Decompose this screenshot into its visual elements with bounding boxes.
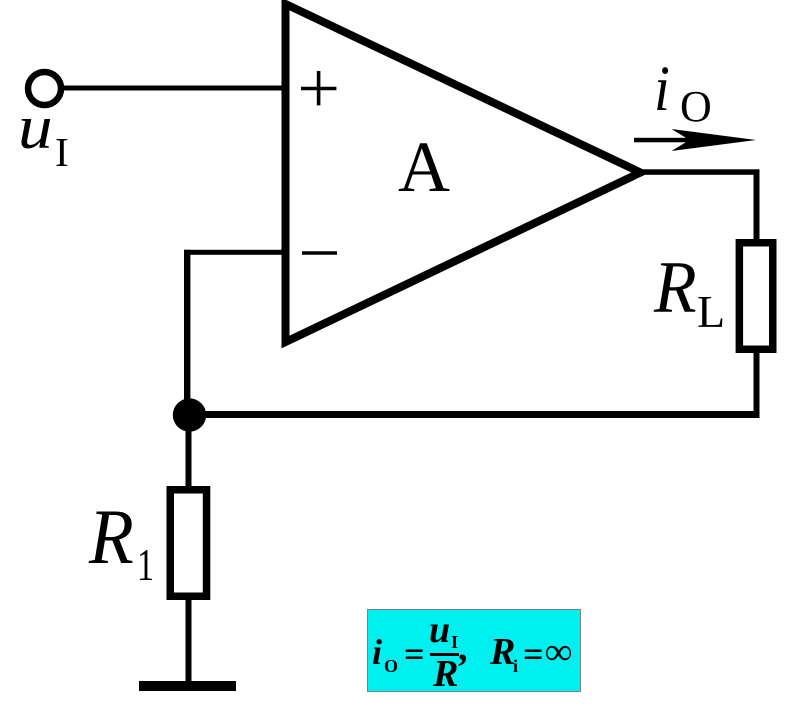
bottom wire node to RL branch (190, 411, 760, 418)
resistor RL (739, 243, 772, 350)
input terminal circle (28, 72, 61, 105)
svg-text:L: L (697, 286, 725, 337)
label R1 (88, 495, 154, 590)
node junction dot (173, 398, 206, 431)
feedback wire from inverting input (vertical) (184, 250, 190, 416)
svg-text:A: A (398, 127, 450, 207)
op-amp U1 triangle (286, 4, 641, 342)
svg-text:I: I (55, 129, 69, 175)
svg-text:u: u (18, 93, 53, 162)
svg-text:R: R (88, 495, 134, 581)
wire RL to bottom wire (754, 350, 760, 416)
wire input to op-amp (63, 86, 287, 91)
svg-text:i: i (654, 53, 670, 125)
svg-text:1: 1 (137, 539, 154, 590)
plus sign (noninverting input) (301, 71, 336, 105)
label u_I (18, 93, 69, 175)
feedback wire from inverting input (horizontal) (184, 250, 287, 255)
output wire from op-amp (639, 169, 760, 175)
formula box (367, 609, 581, 692)
minus sign (inverting input) (302, 251, 337, 255)
wire output corner down to RL (754, 172, 760, 242)
svg-text:O: O (680, 82, 712, 131)
current arrow i_O (634, 129, 756, 151)
wire R1 to ground (186, 600, 192, 684)
svg-text:R: R (653, 246, 697, 328)
label RL (653, 246, 725, 337)
resistor R1 (170, 490, 206, 597)
ground symbol (139, 681, 236, 691)
label i_O (654, 53, 712, 131)
wire node to R1 (186, 415, 192, 489)
